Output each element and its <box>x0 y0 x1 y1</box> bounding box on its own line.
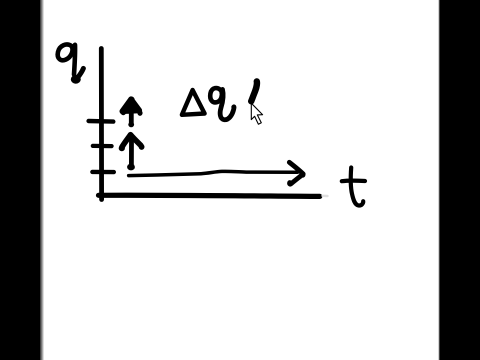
upper up-arrow shaft <box>129 110 134 124</box>
mouse cursor <box>251 103 262 124</box>
label t crossbar <box>342 179 365 184</box>
upper up-arrow shaft end blob <box>128 122 134 127</box>
upper up-arrow left wing blob <box>121 110 126 115</box>
upper up-arrow head <box>122 99 139 111</box>
lower up-arrow head <box>122 135 141 147</box>
y-axis line <box>99 49 104 200</box>
right letterbox bar <box>438 0 480 360</box>
tick mark 2 (middle) <box>93 144 112 148</box>
q of Δq tail <box>220 89 234 119</box>
tick mark 1 (top) <box>89 119 114 124</box>
horizontal arrow head <box>289 162 303 184</box>
delta triangle of Δq <box>182 90 205 115</box>
upper up-arrow right wing blob <box>137 110 142 116</box>
upper up-arrow apex blob <box>128 97 134 103</box>
label q (y-axis) stem <box>74 45 75 75</box>
horizontal arrow shaft <box>129 171 298 175</box>
x-axis line <box>99 195 320 196</box>
label q (y-axis) loop <box>58 45 73 61</box>
lower up-arrow shaft end blob <box>127 164 135 171</box>
horizontal arrow head point blob <box>300 172 305 177</box>
q of Δq loop <box>210 88 222 102</box>
label q bottom blob <box>71 75 81 84</box>
lower up-arrow left wing blob <box>119 145 125 151</box>
label t vertical stroke <box>351 168 364 206</box>
left letterbox bar <box>0 0 44 360</box>
pen stroke above cursor <box>251 81 257 101</box>
x-axis faint gray nub <box>323 195 328 198</box>
lower up-arrow shaft <box>129 136 134 166</box>
label q up-tick <box>77 68 83 78</box>
tick mark 3 (bottom) <box>92 170 113 175</box>
lower up-arrow right wing blob <box>139 144 145 150</box>
